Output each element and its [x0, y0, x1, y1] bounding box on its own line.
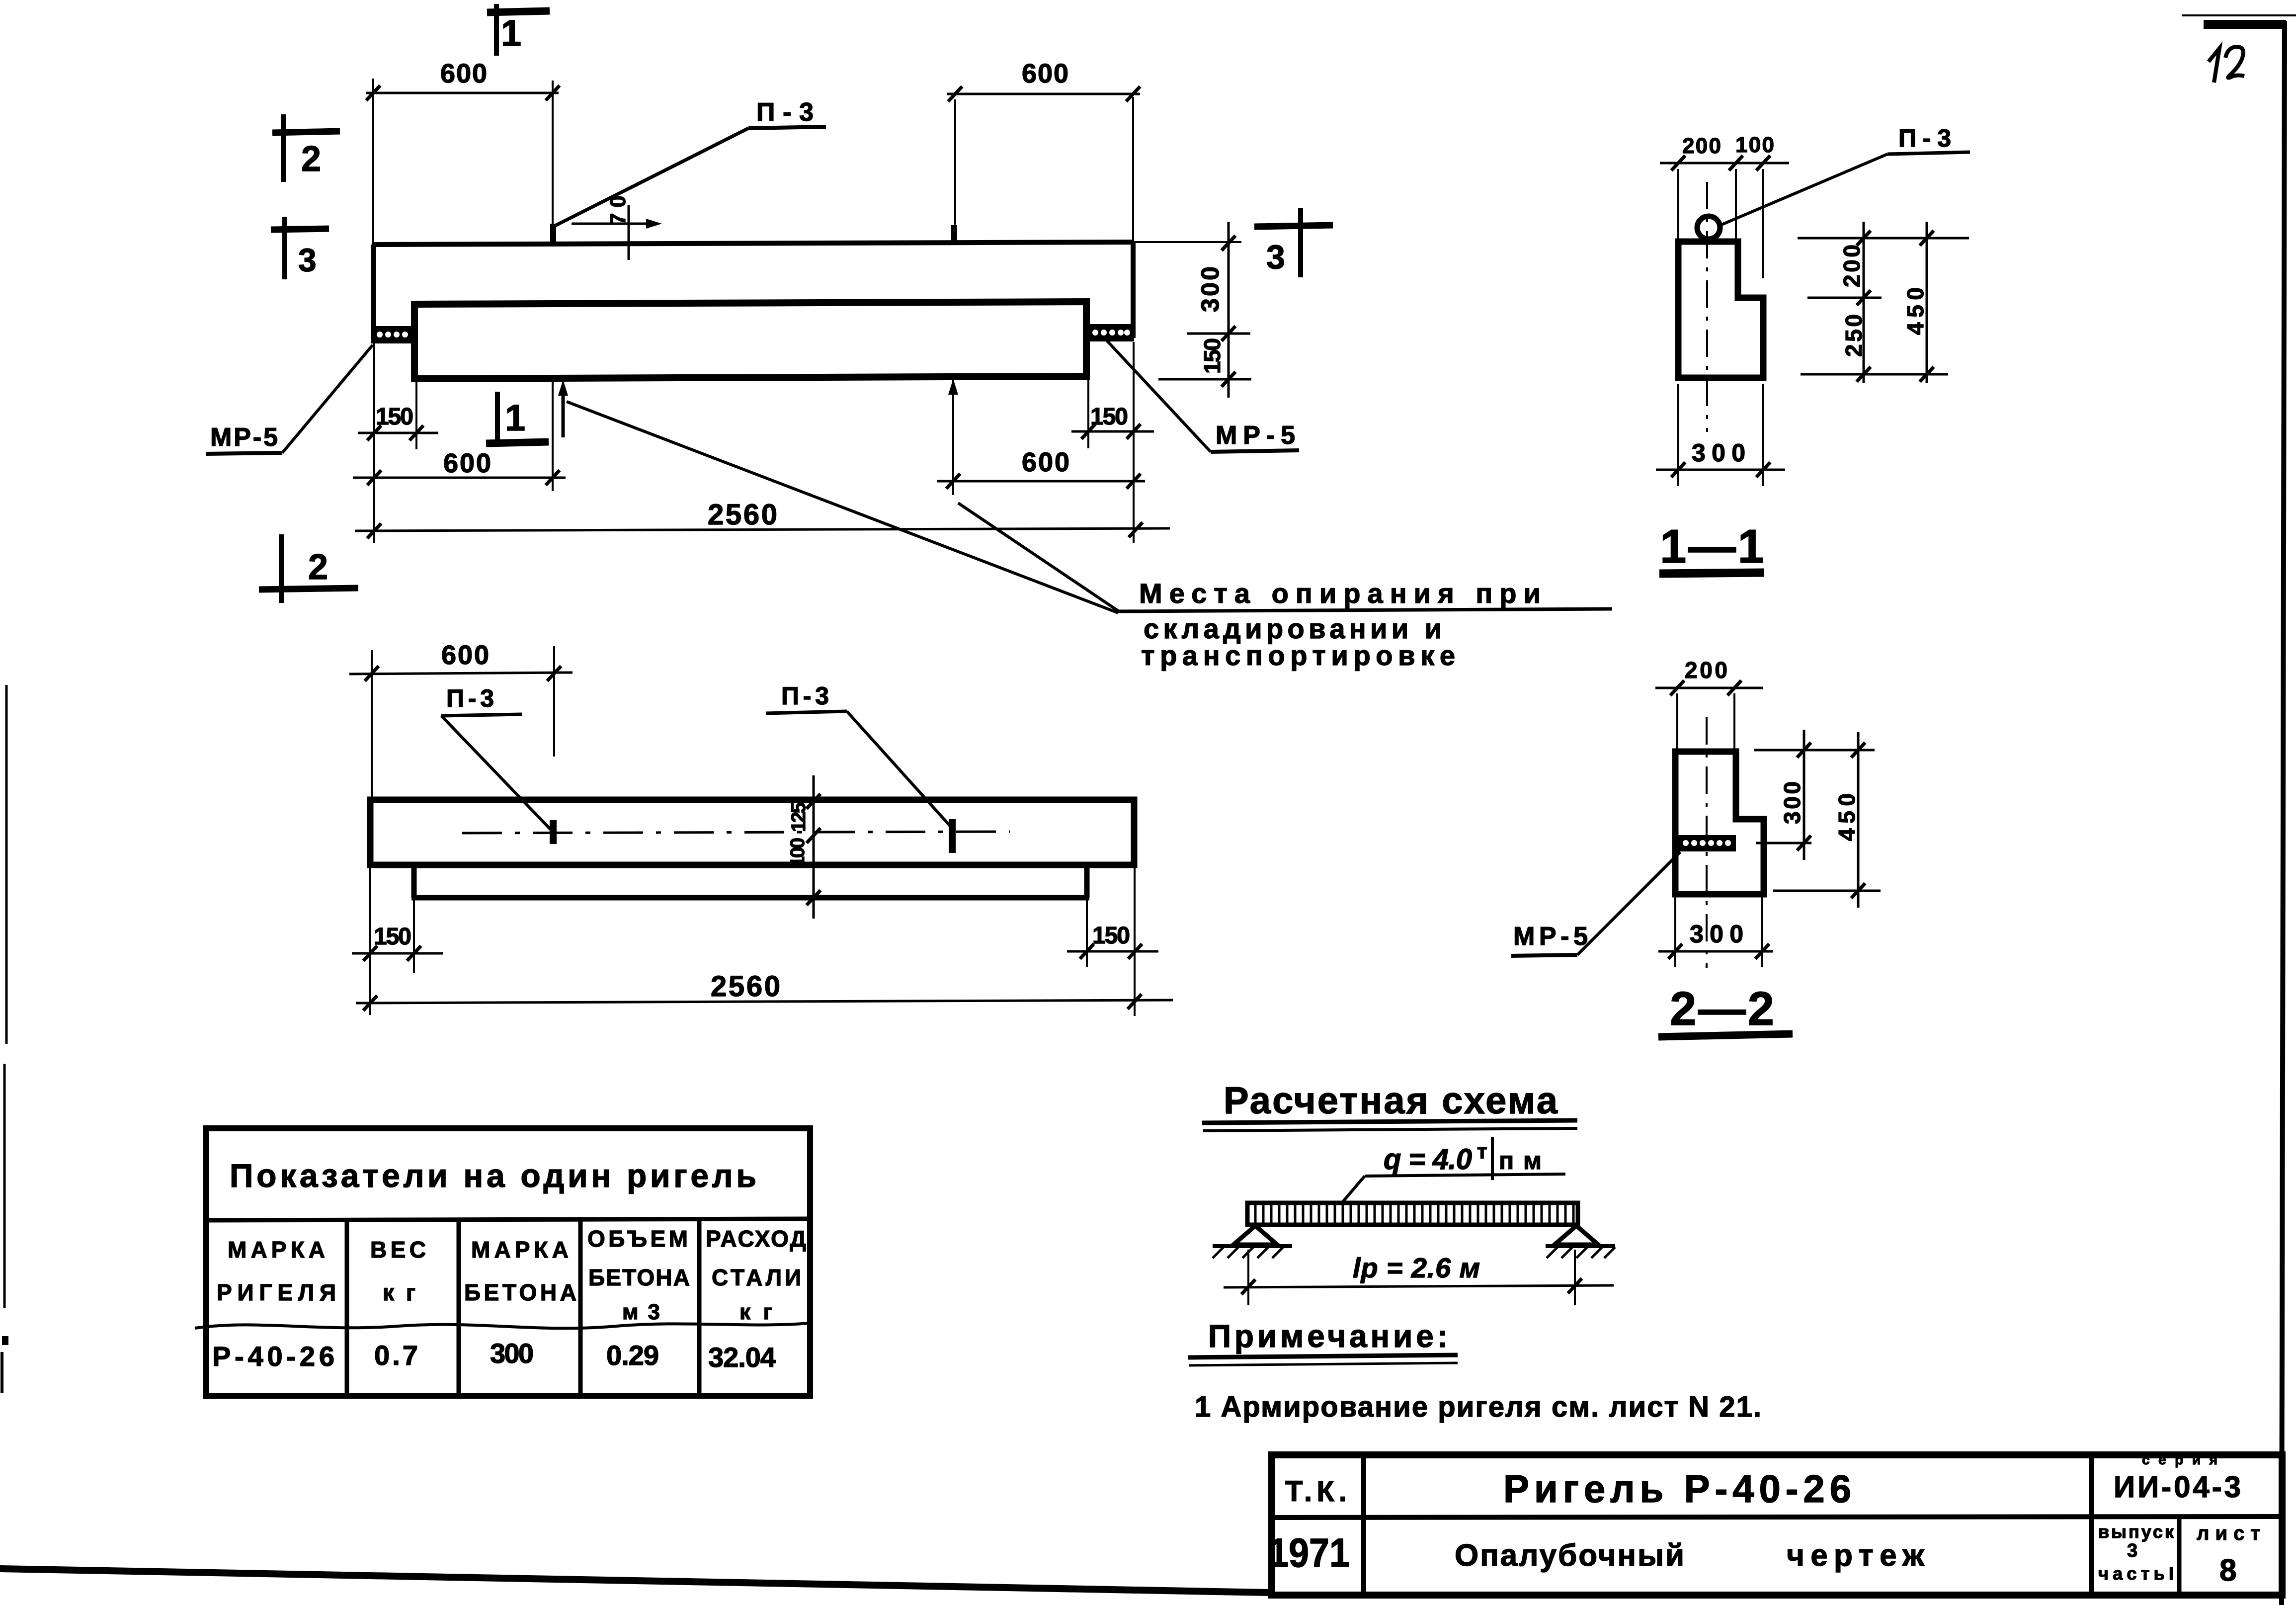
- svg-text:300: 300: [490, 1338, 534, 1369]
- svg-text:250: 250: [1841, 314, 1867, 357]
- dim 600 top-left tick left: [366, 85, 380, 100]
- load strip hatch: [1255, 1205, 1573, 1223]
- ext line right loop below beam: [952, 380, 954, 495]
- dim 150 mid-left tick left: [363, 946, 377, 961]
- dim 600 mid tick right: [547, 666, 561, 681]
- load label fraction bar: [1491, 1137, 1494, 1180]
- table outer border: [206, 1128, 810, 1396]
- dim 600 bottom-right tick left: [946, 474, 960, 489]
- label 2-2 underline: [1658, 1034, 1793, 1037]
- title block column line 1: [1361, 1455, 1366, 1595]
- load strip outline: [1247, 1203, 1578, 1225]
- section 2-2 outline: [1675, 752, 1764, 894]
- chain tick top: [1857, 231, 1871, 246]
- svg-text:150: 150: [1092, 923, 1130, 949]
- svg-text:450: 450: [1834, 793, 1860, 841]
- dim 300 sec2 ext top: [1754, 749, 1875, 752]
- beam right end edge: [1131, 242, 1136, 338]
- dim 150 mid-right tick right: [1128, 944, 1142, 959]
- section mark 2 lower-left: bar: [259, 588, 358, 590]
- height dim mid ext line: [1187, 333, 1250, 335]
- svg-text:ВЕС: ВЕС: [370, 1237, 426, 1263]
- svg-text:600: 600: [1022, 447, 1069, 477]
- label P-3 mid-right leader: [847, 711, 951, 827]
- label P-3 mid-left underline: [441, 714, 522, 716]
- dim 150 bottom-left line: [358, 432, 438, 434]
- chain tick mid: [1857, 290, 1871, 305]
- dim 300 sec2 bottom tick right: [1755, 944, 1769, 959]
- dim 2560 tick left: [367, 523, 381, 538]
- svg-text:Примечание:: Примечание:: [1208, 1318, 1448, 1354]
- ext line top level: [1798, 237, 1969, 240]
- dim 600 mid tick left: [365, 666, 379, 681]
- ext line bottom level: [1801, 373, 1948, 376]
- dim top ext 1: [1677, 169, 1679, 239]
- dim 150 bottom-right line: [1071, 430, 1154, 433]
- dim 2560 mid line: [356, 1000, 1173, 1003]
- right dim chain line 200/250: [1863, 222, 1865, 383]
- section mark 1 bottom: stem: [495, 392, 500, 443]
- dim 600 mid ext right: [553, 646, 555, 757]
- svg-text:П-3: П-3: [756, 98, 814, 127]
- dim 600 top-left line: [366, 92, 559, 94]
- svg-text:1971: 1971: [1268, 1530, 1350, 1576]
- right bearing plate MP-5: [1086, 324, 1134, 341]
- dim 600 top-right tick left: [948, 86, 962, 101]
- dim top tick 2: [1729, 156, 1743, 170]
- dim 200 sec2 ext left: [1676, 693, 1678, 752]
- load label leader bend: [1342, 1176, 1365, 1203]
- svg-text:МР-5: МР-5: [1513, 922, 1588, 951]
- dim 600 bottom-right tick right: [1127, 474, 1141, 489]
- svg-text:150: 150: [376, 404, 413, 430]
- dim 450 sec2 tick bottom: [1851, 883, 1865, 898]
- svg-text:150: 150: [1090, 404, 1128, 430]
- left bearing plate MP-5: [371, 326, 413, 343]
- label MP-5 sec2 underline: [1511, 955, 1577, 956]
- svg-text:1 — 1: 1 — 1: [1660, 520, 1764, 573]
- label 1-1 underline: [1659, 573, 1764, 574]
- svg-text:МР-5: МР-5: [1216, 421, 1295, 450]
- left support hatch: [1213, 1247, 1283, 1258]
- svg-text:Опалубочный: Опалубочный: [1455, 1538, 1684, 1573]
- support point arrow left: [562, 389, 565, 437]
- right support base: [1546, 1244, 1615, 1248]
- svg-text:600: 600: [443, 448, 491, 478]
- label MP-5 left underline: [206, 453, 282, 454]
- svg-text:2 — 2: 2 — 2: [1670, 982, 1774, 1035]
- dim 300 sec2 tick top: [1797, 743, 1811, 758]
- ext line left loop below beam: [552, 380, 554, 491]
- dim 150 mid-right ext 2: [1086, 900, 1088, 967]
- dim 450 tick bottom: [1920, 367, 1934, 382]
- left border segment 1: [5, 685, 8, 1044]
- svg-text:1: 1: [501, 12, 521, 54]
- table column line 2: [457, 1220, 461, 1396]
- section mark 3 right: stem: [1298, 208, 1303, 277]
- angle annotation arrowhead: [646, 219, 662, 229]
- svg-text:3: 3: [298, 242, 317, 278]
- section 1-1 outline: [1678, 242, 1763, 378]
- G_SCHEMA: [1188, 1080, 1761, 1423]
- section 1-1 centerline: [1706, 182, 1708, 432]
- right border: [2282, 21, 2285, 1605]
- dim top tick 1: [1671, 156, 1685, 170]
- beam body rectangle: [370, 800, 1134, 865]
- dim 150 mid-right tick left: [1080, 944, 1094, 959]
- section mark 1 top: stem: [494, 4, 499, 56]
- table column line 3: [578, 1219, 583, 1396]
- label P-3 mid-left leader: [441, 716, 552, 831]
- dim 600 bottom-left line: [353, 477, 566, 479]
- dim 150 mid-right ext 1: [1134, 867, 1136, 1016]
- ext line right end below beam: [1133, 342, 1135, 543]
- dim 200 sec2 line: [1655, 687, 1763, 689]
- left border blob: [2, 1336, 8, 1345]
- dim top ext 2: [1735, 169, 1737, 278]
- svg-text:БЕТОНА: БЕТОНА: [588, 1265, 690, 1290]
- dim 600 top-left ext right: [552, 81, 554, 224]
- left border segment 2: [3, 1064, 6, 1308]
- svg-text:МР-5: МР-5: [210, 423, 278, 452]
- svg-text:Показатели на один ригель: Показатели на один ригель: [230, 1157, 756, 1194]
- svg-text:П-3: П-3: [1898, 124, 1951, 152]
- note heading underline 2: [1189, 1363, 1458, 1365]
- dim 150 mid-left ext 2: [413, 900, 415, 973]
- section mark 3 upper-left: bar: [271, 229, 329, 230]
- beam top edge thin extension right: [1133, 241, 1241, 243]
- svg-text:200: 200: [1682, 134, 1721, 158]
- svg-text:2: 2: [301, 139, 321, 179]
- svg-text:2: 2: [308, 547, 328, 587]
- label P-3 top leader: [554, 128, 748, 226]
- title block row separator: [1272, 1517, 2282, 1518]
- svg-text:8: 8: [2219, 1553, 2236, 1588]
- dim 600 bottom-right line: [937, 480, 1145, 483]
- label MP-5 sec2 leader: [1577, 852, 1680, 955]
- dim 300 tick left: [1671, 462, 1685, 477]
- left border segment 3: [0, 1352, 3, 1393]
- dim 150 mid-right line: [1067, 950, 1158, 953]
- dim 300 bottom line: [1656, 469, 1785, 471]
- span ext left: [1247, 1250, 1249, 1305]
- svg-text:150: 150: [1199, 338, 1225, 374]
- section mark 1 top: bar: [487, 11, 550, 12]
- dim 600 mid line: [349, 673, 573, 674]
- dim 300 sec2 bottom line: [1658, 950, 1773, 953]
- title block outer frame: [1272, 1455, 2282, 1595]
- span tick right: [1568, 1278, 1582, 1293]
- dim 150 bottom-left ext: [415, 379, 417, 449]
- dim 450 sec2 line: [1857, 732, 1860, 908]
- height dim tick top: [1222, 236, 1235, 251]
- svg-text:32.04: 32.04: [708, 1342, 776, 1373]
- svg-text:ОБЪЕМ: ОБЪЕМ: [587, 1226, 688, 1252]
- dim top ext 3: [1762, 169, 1764, 278]
- dim 600 mid ext left: [371, 650, 373, 800]
- section mark 2 lower-left: stem: [279, 534, 284, 603]
- support points leader 2: [958, 503, 1118, 611]
- dim 2560 line: [355, 528, 1170, 531]
- rib left stub: [411, 865, 417, 898]
- lifting loop circle: [1697, 216, 1720, 239]
- table header separator: [206, 1219, 810, 1220]
- svg-text:Расчетная схема: Расчетная схема: [1224, 1080, 1558, 1122]
- dim 150 bottom-left tick left: [367, 425, 381, 440]
- note heading underline 1: [1188, 1355, 1458, 1357]
- bearing plate MP-5 in section: [1677, 835, 1736, 851]
- center dim chain ext line: [813, 775, 815, 919]
- svg-text:300: 300: [1690, 920, 1743, 948]
- svg-text:МАРКА: МАРКА: [228, 1237, 325, 1263]
- svg-text:q = 4.0: q = 4.0: [1384, 1143, 1472, 1176]
- svg-text:1: 1: [505, 397, 525, 438]
- top border thin line: [2182, 14, 2296, 16]
- dim 600 top-right tick right: [1126, 86, 1140, 101]
- dim 200 sec2 tick right: [1727, 680, 1741, 695]
- svg-text:МАРКА: МАРКА: [471, 1237, 569, 1263]
- dim 300 sec2 line: [1803, 730, 1805, 860]
- dim 300 sec2 bottom ext left: [1674, 895, 1676, 967]
- label MP-5 left leader: [282, 345, 373, 453]
- dim 600 top-right line: [947, 93, 1140, 95]
- label P-3 sec1 leader: [1722, 154, 1887, 225]
- dim 2560 mid tick right: [1128, 994, 1142, 1009]
- section 2-2 centerline: [1706, 717, 1708, 968]
- left support base: [1213, 1244, 1292, 1248]
- dim 300 sec2 bottom ext right: [1761, 895, 1763, 967]
- dim 150 bottom-right ext: [1087, 343, 1089, 448]
- dim 150 bottom-right tick left: [1081, 424, 1095, 439]
- beam top edge: [372, 242, 1133, 245]
- dim 150 mid-left line: [352, 952, 443, 955]
- dim 200/100 top line: [1660, 162, 1789, 165]
- dim 450 sec2 tick top: [1851, 743, 1865, 758]
- svg-text:т: т: [1477, 1139, 1487, 1163]
- page number 12: [2209, 48, 2219, 83]
- beam left end edge: [371, 245, 376, 343]
- svg-text:1 Армирование ригеля см. лист: 1 Армирование ригеля см. лист N 21.: [1195, 1391, 1761, 1423]
- height dim bottom ext line: [1158, 378, 1251, 381]
- dim 450 tick top: [1920, 231, 1934, 246]
- left loop mark: [550, 820, 557, 844]
- dim 300 tick right: [1756, 462, 1770, 477]
- svg-text:300: 300: [1779, 781, 1805, 824]
- dim 150 bottom-right tick right: [1127, 424, 1141, 439]
- beam rib outline: [414, 302, 1086, 379]
- dim 300 sec2 ext mid: [1756, 842, 1811, 845]
- schema title underline 2: [1203, 1128, 1577, 1131]
- svg-text:125: 125: [788, 802, 810, 832]
- section mark 1 bottom: bar: [486, 442, 549, 443]
- schema title underline 1: [1202, 1120, 1577, 1123]
- label P-3 mid-right underline: [766, 711, 847, 713]
- height dim tick mid: [1222, 326, 1235, 341]
- section mark 2 upper-left: stem: [281, 114, 286, 182]
- table column line 4: [697, 1218, 702, 1396]
- right lifting loop P-3 stub: [951, 225, 957, 244]
- dim 600 top-left ext left: [372, 79, 374, 244]
- svg-text:0.29: 0.29: [606, 1340, 659, 1371]
- center dim tick bottom: [807, 890, 820, 905]
- svg-text:450: 450: [1902, 287, 1928, 335]
- centerline: [462, 832, 1010, 833]
- G_SECTION11: [1656, 124, 1970, 574]
- G_TABLE: [195, 1128, 810, 1396]
- svg-text:П-3: П-3: [781, 682, 829, 710]
- dim 150 mid-left tick right: [407, 946, 421, 961]
- rib right stub: [1084, 865, 1090, 898]
- note underline: [1118, 609, 1612, 611]
- dim 150 mid-left ext 1: [369, 867, 371, 1015]
- title block column line 3: [2177, 1518, 2182, 1595]
- angle annotation line: [572, 223, 656, 225]
- span tick left: [1241, 1279, 1255, 1294]
- label P-3 sec1 underline: [1887, 152, 1970, 154]
- dim 300 ext right: [1762, 384, 1764, 486]
- right support hatch: [1547, 1247, 1615, 1258]
- svg-text:ИИ-04-3: ИИ-04-3: [2114, 1470, 2241, 1504]
- G_MIDVIEW: [349, 640, 1173, 1016]
- svg-text:0.7: 0.7: [374, 1340, 418, 1371]
- svg-text:300: 300: [1692, 439, 1745, 467]
- chain tick bottom: [1857, 367, 1871, 382]
- right loop mark: [949, 819, 956, 853]
- table column line 1: [345, 1220, 349, 1396]
- left support triangle: [1233, 1226, 1277, 1245]
- svg-text:3: 3: [1266, 238, 1285, 276]
- ext line mid level: [1807, 297, 1882, 299]
- dim 600 bottom-left tick left: [367, 470, 381, 485]
- dim 300 sec2 tick bottom: [1797, 836, 1811, 850]
- right support triangle: [1555, 1226, 1598, 1245]
- dim 150 bottom-left tick right: [410, 425, 423, 440]
- table row separator (wavy): [195, 1323, 810, 1328]
- dim top tick 3: [1756, 156, 1770, 170]
- svg-text:300: 300: [1196, 266, 1224, 312]
- svg-text:транспортировке: транспортировке: [1141, 640, 1455, 671]
- svg-text:3: 3: [2127, 1540, 2137, 1561]
- svg-text:600: 600: [1022, 59, 1068, 88]
- dim 600 bottom-left tick right: [546, 470, 560, 485]
- ext line left end below beam: [373, 343, 375, 543]
- bottom border line: [0, 1569, 1270, 1593]
- svg-text:600: 600: [441, 640, 489, 670]
- section mark 3 upper-left: stem: [282, 217, 287, 279]
- top border thick bar: [2204, 20, 2286, 29]
- dim 300 sec2 bottom tick left: [1668, 944, 1682, 959]
- support point arrow right: [948, 379, 958, 395]
- dim 600 top-left tick right: [546, 85, 560, 100]
- svg-text:lp = 2.6 м: lp = 2.6 м: [1353, 1252, 1480, 1283]
- G_SECTION22: [1511, 657, 1881, 1037]
- center dim tick mid: [807, 828, 820, 843]
- svg-text:СТАЛИ: СТАЛИ: [712, 1265, 801, 1290]
- height dim tick bottom: [1222, 372, 1235, 387]
- svg-text:РАСХОД: РАСХОД: [706, 1226, 806, 1252]
- dim 2560 mid tick left: [363, 996, 377, 1011]
- label P-3 top underline: [748, 127, 826, 128]
- dim 600 top-right ext left: [954, 99, 956, 225]
- svg-text:П-3: П-3: [446, 684, 494, 712]
- dim 450 sec2 ext bottom: [1773, 890, 1881, 892]
- G_TOPVIEW: [206, 4, 1612, 671]
- svg-text:200: 200: [1685, 657, 1727, 683]
- left lifting loop P-3 stub: [550, 224, 556, 245]
- dim 200 sec2 ext right: [1733, 693, 1735, 752]
- svg-text:100: 100: [787, 838, 809, 867]
- rib bottom edge: [411, 895, 1089, 901]
- label MP-5 right leader: [1106, 340, 1211, 452]
- dim 600 top-right ext right: [1132, 97, 1134, 242]
- svg-text:200: 200: [1839, 245, 1865, 287]
- support points leader 1: [567, 402, 1118, 613]
- angle annotation tick: [628, 205, 630, 260]
- section mark 3 right: bar: [1254, 225, 1333, 227]
- dim 300 ext left: [1677, 384, 1679, 486]
- dim 200 sec2 tick left: [1670, 680, 1684, 695]
- section mark 2 upper-left: bar: [272, 131, 340, 133]
- title block column line 2: [2089, 1455, 2094, 1595]
- load label underline: [1365, 1174, 1565, 1176]
- svg-text:600: 600: [440, 59, 487, 88]
- svg-text:100: 100: [1735, 133, 1774, 157]
- svg-text:150: 150: [374, 924, 411, 950]
- svg-text:с е р и я: с е р и я: [2142, 1452, 2217, 1467]
- dim 450 line: [1926, 222, 1928, 383]
- G_TITLEBLOCK: [1268, 1452, 2282, 1595]
- height dim line right: [1228, 222, 1230, 398]
- dim 2560 tick right: [1129, 522, 1143, 537]
- span ext right: [1574, 1250, 1576, 1305]
- label MP-5 right underline: [1211, 450, 1299, 452]
- center dim tick top: [807, 794, 820, 809]
- span dim line: [1224, 1285, 1614, 1287]
